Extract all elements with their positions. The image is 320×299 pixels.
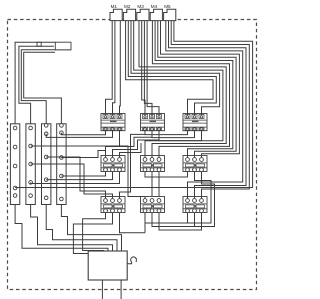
contactor block K6 — [183, 156, 207, 172]
wire K6 pin5 wrap — [188, 172, 212, 224]
wire X4 to K4 top — [61, 151, 105, 158]
wire K5 pin5 down — [151, 172, 153, 197]
contactor block K7 — [101, 197, 125, 213]
contactor block K1 — [101, 114, 125, 131]
wire X3 bottom to box — [46, 205, 117, 252]
terminal box M4 — [150, 4, 162, 21]
wire K3 pin6 Z — [159, 131, 202, 141]
svg-text:M5: M5 — [164, 4, 171, 9]
wire bus line 5 — [161, 21, 240, 158]
wire bus line 12 — [128, 21, 216, 116]
dashed enclosure border — [8, 20, 257, 290]
svg-text:M2: M2 — [124, 4, 131, 9]
wire X1 bottom to box — [15, 205, 108, 252]
junction tab B — [55, 42, 71, 50]
wire M1 pin1 to K1 — [106, 21, 113, 116]
wire bus line 3 — [169, 21, 247, 199]
wire K4 pin5 to X3 — [46, 172, 112, 180]
wire K1 pin5 to X3 — [46, 131, 112, 138]
wire K2 pin6 corridor — [113, 131, 160, 157]
terminal strip X1 — [10, 124, 19, 205]
contactor block K5 — [141, 156, 165, 172]
wire strip X1 top feed — [15, 42, 55, 124]
wire X2 to K7 top — [31, 164, 113, 198]
wire K2 pin5 corridor — [106, 131, 153, 157]
svg-text:M1: M1 — [111, 4, 118, 9]
wire K5 pin4 to K6 — [145, 172, 188, 178]
wire K7 pin6 right — [120, 213, 146, 233]
wire K8 pin4 nest — [145, 213, 188, 224]
wire K4 pin4 to X4 — [61, 172, 105, 177]
wire K6 pin6 wrap — [195, 172, 215, 227]
wire K1 pin4 to X4 — [61, 131, 105, 135]
wire bus line 7 — [155, 21, 233, 158]
wire X4 bottom to box — [61, 205, 121, 252]
wire K3 pin4 Z — [145, 131, 188, 135]
terminal strip X2 — [26, 124, 35, 205]
power unit box — [88, 251, 127, 280]
wire M1 pin4 to K1 — [119, 21, 122, 116]
wire bus line 11 — [131, 21, 220, 116]
wire M3 pin4 to K2 — [147, 21, 159, 116]
wire M1 pin2 to K1 — [113, 21, 115, 116]
wire box output 2 — [120, 280, 122, 299]
terminal box M5 — [164, 4, 176, 21]
wire bus line 10 — [134, 21, 223, 158]
wire K3 pin5 Z — [152, 131, 195, 138]
wire bus line 9 — [139, 21, 226, 158]
contactor block K8 — [141, 197, 165, 213]
wire X2 bottom to box — [31, 205, 113, 252]
wire X2 long run to K8 — [31, 146, 145, 198]
wire K5 pin6 down — [158, 172, 160, 197]
buzzer hook symbol — [127, 257, 136, 264]
terminal strip X4 — [57, 124, 66, 205]
contactor block K9 — [183, 197, 207, 213]
wire K8 pin5 nest — [152, 213, 195, 227]
wire M3 pin2 to K2 — [142, 21, 145, 116]
svg-text:M4: M4 — [151, 4, 158, 9]
wire strip X4 top feed — [24, 52, 62, 124]
wire corridor to K4 — [120, 143, 142, 157]
contactor block K4 — [101, 156, 125, 172]
junction tab A — [37, 42, 41, 46]
terminal box M3 — [137, 4, 149, 21]
wire strip X2 top feed — [19, 46, 54, 124]
wire bus line 6 — [158, 21, 236, 158]
terminal strip X3 — [42, 124, 51, 205]
wire K8 pin4 drop — [144, 213, 146, 233]
contactor block K3 — [183, 114, 207, 131]
svg-text:M3: M3 — [137, 4, 144, 9]
wire bus line 8 — [152, 21, 229, 158]
wire box output 1 — [101, 280, 103, 299]
wire K2 pin4 corridor — [120, 131, 146, 198]
wire strip X3 top feed — [21, 50, 71, 124]
terminal box M2 — [123, 4, 135, 21]
wire K7 pin4 to box — [83, 213, 106, 252]
wire bus line 1 — [15, 21, 253, 188]
wire K7 pin5 left — [73, 213, 112, 254]
wire K1 pin6 down — [119, 131, 121, 146]
wire bus line 4 — [166, 21, 243, 199]
contactor block K2 — [141, 114, 165, 131]
wire bus line 13 — [126, 21, 213, 116]
wire K4 pin6 to X2 — [31, 172, 120, 184]
wire bus line 2 — [171, 21, 249, 199]
terminal box M1 — [110, 4, 122, 21]
wire X3 to K7 top — [46, 157, 105, 198]
wire M3 pin3 to K2 — [144, 21, 152, 116]
wire K8 pin6 nest — [159, 213, 202, 231]
